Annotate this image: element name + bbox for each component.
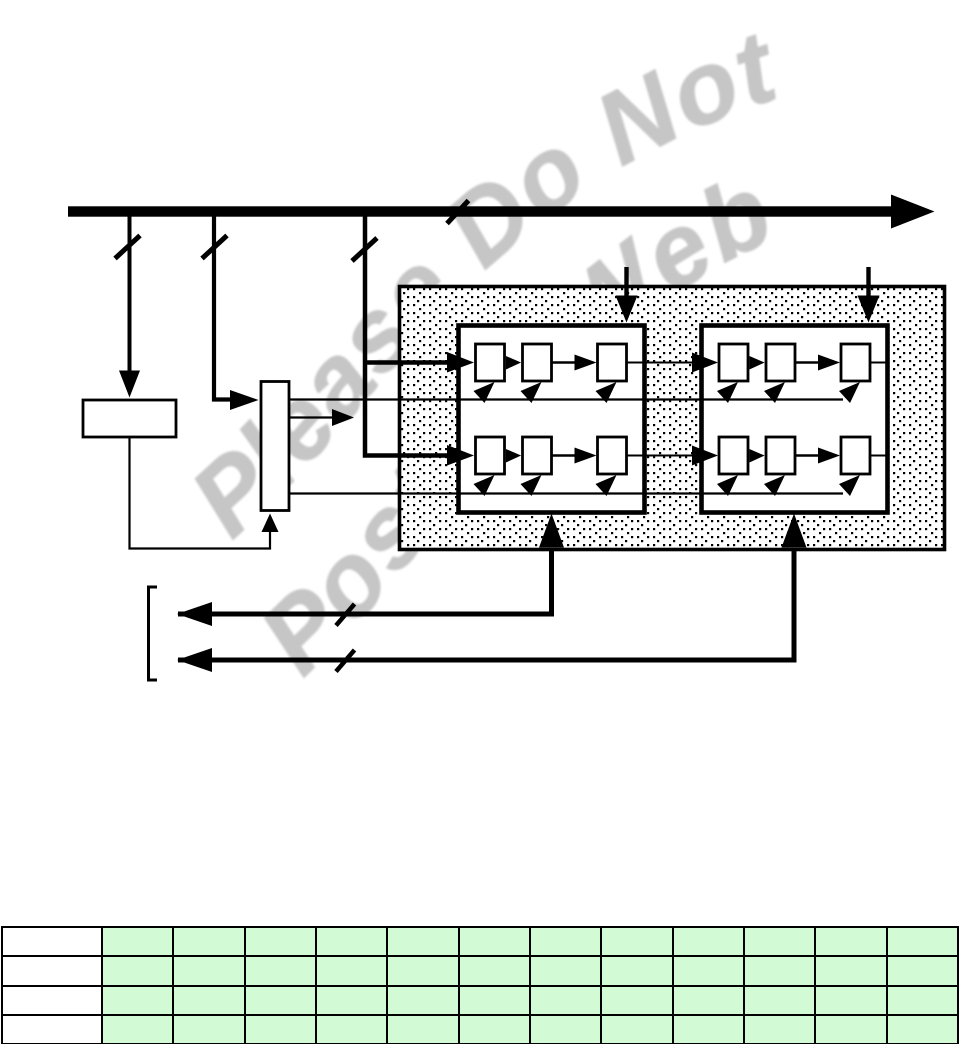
wire bus drop 2 (214, 216, 231, 400)
arrowhead into block2 (692, 446, 718, 466)
wire cell2-cell3 (552, 454, 576, 456)
arrowhead into block2 (692, 353, 718, 373)
slash on drop 2 (202, 236, 227, 259)
clock input stub into block 2 (858, 267, 880, 323)
flip-flop cell F2 (841, 437, 870, 474)
clock arrow cell B2 (764, 382, 785, 403)
flip-flop cell F1 (598, 437, 627, 474)
arrowhead cell2-cell3 (818, 448, 840, 464)
arrowhead of short output (332, 409, 354, 426)
short output wire (289, 416, 333, 418)
data bus (68, 195, 935, 229)
slash on output wire 1 (336, 604, 355, 626)
watermark (169, 8, 792, 694)
wire arrow cell1-cell2 (506, 449, 521, 463)
clock line row 2 (289, 492, 843, 494)
clock arrow cell A1 (474, 382, 495, 403)
clock line row 1 (289, 398, 843, 400)
row 1 data feed wire (363, 360, 448, 365)
arrowhead into register box (119, 371, 140, 398)
arrowhead cell2-cell3 (818, 355, 840, 371)
shift register block 2 (702, 326, 888, 513)
flip-flop cell B2 (766, 344, 795, 381)
register box (83, 400, 176, 437)
flip-flop cell A2 (719, 344, 748, 381)
wire cell2-cell3 (552, 361, 576, 363)
flip-flop cell E2 (766, 437, 795, 474)
arrowhead into prescaler left (230, 390, 259, 410)
clock arrow cell E2 (764, 475, 785, 496)
flip-flop cell C1 (598, 344, 627, 381)
flip-flop cell D1 (476, 437, 505, 474)
timing table (1, 926, 959, 1044)
arrowhead up into prescaler bottom (262, 514, 279, 533)
wire bus drop 3 (365, 216, 448, 456)
slash on output wire 2 (336, 650, 355, 672)
wire block1 to block2 (627, 362, 701, 364)
output wire 2 (from block 2) (177, 514, 807, 673)
clock input stub into block 1 (616, 267, 638, 323)
arrowhead row 1 input (447, 352, 474, 373)
flip-flop cell B1 (523, 344, 552, 381)
clock arrow cell A2 (717, 382, 738, 403)
output wire 1 (from block 1) (177, 514, 564, 627)
wire block1 to block2 (627, 455, 701, 457)
bus width slash (447, 201, 469, 224)
flip-flop cell A1 (476, 344, 505, 381)
dotted module box (400, 287, 945, 550)
wire cell2-cell3 (795, 361, 819, 363)
bracket (149, 587, 158, 680)
clock arrow cell F2 (839, 475, 860, 496)
wire cell2-cell3 (795, 454, 819, 456)
clock arrow cell F1 (596, 475, 617, 496)
clock arrow cell D1 (474, 475, 495, 496)
wire cell3 block2 to edge (870, 362, 887, 364)
prescaler (tall rect) (261, 382, 289, 511)
flip-flop cell C2 (841, 344, 870, 381)
feedback wire register box to prescaler (130, 438, 271, 549)
arrowhead cell2-cell3 (575, 355, 597, 371)
arrowhead cell2-cell3 (575, 448, 597, 464)
clock arrow cell C1 (596, 382, 617, 403)
clock arrow cell E1 (521, 475, 542, 496)
clock arrow cell C2 (839, 382, 860, 403)
slash on drop 1 (115, 236, 140, 259)
wire arrow cell1-cell2 (506, 356, 521, 370)
arrowhead row 2 input (447, 445, 474, 466)
slash on drop 3 (352, 238, 377, 261)
flip-flop cell D2 (719, 437, 748, 474)
wire cell3 block2 to edge (870, 455, 887, 457)
wire arrow cell1-cell2 (749, 356, 764, 370)
shift register block 1 (459, 326, 645, 513)
clock arrow cell B1 (521, 382, 542, 403)
wire arrow cell1-cell2 (749, 449, 764, 463)
clock arrow cell D2 (717, 475, 738, 496)
flip-flop cell E1 (523, 437, 552, 474)
wire bus drop 1 (128, 216, 132, 372)
